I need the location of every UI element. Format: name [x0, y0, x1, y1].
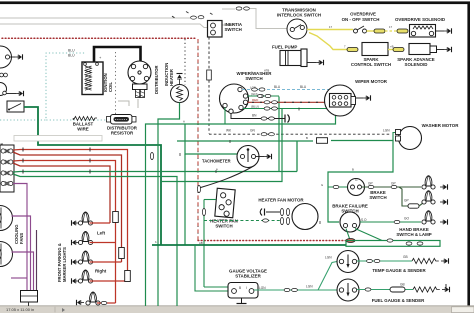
overdrive on-off switch — [354, 26, 367, 33]
svg-text:GN: GN — [250, 129, 255, 133]
svg-text:A: A — [183, 120, 185, 124]
red wire D — [13, 163, 110, 223]
spark control switch — [362, 43, 388, 56]
svg-text:17.05 x 11.00 in: 17.05 x 11.00 in — [6, 307, 34, 312]
red wire A — [13, 150, 128, 282]
svg-text:WK: WK — [226, 129, 232, 133]
wire yellow interlock to od switch — [307, 29, 353, 31]
svg-text:G: G — [321, 183, 323, 187]
washer motor M3 — [396, 127, 422, 150]
fuse in washer feed — [317, 138, 328, 144]
bulkhead connector block — [0, 145, 14, 192]
white wire sleeve — [14, 136, 102, 142]
connector on green vertical — [150, 152, 153, 159]
green wire brake feed vertical — [296, 141, 298, 172]
green wire wiper switch down — [278, 97, 280, 172]
marker lamp 3 — [78, 251, 92, 264]
wire temp gauge to sender — [357, 260, 412, 262]
svg-text:WASHER MOTOR: WASHER MOTOR — [422, 123, 460, 128]
black wire with capacitor to motor — [266, 211, 280, 213]
svg-text:LGN: LGN — [325, 256, 332, 260]
svg-text:GP: GP — [404, 199, 409, 203]
wire white inertia to interlock — [222, 24, 236, 26]
brake lamp 2 — [422, 191, 435, 204]
wire and ground for spark solenoid — [437, 49, 445, 51]
svg-text:AB: AB — [199, 241, 203, 245]
wire stabilizer to fuel gauge — [254, 289, 337, 291]
junction ticks — [180, 95, 320, 224]
green feed to heater switch — [204, 199, 216, 201]
wire below fans box — [28, 302, 30, 306]
svg-text:BN: BN — [252, 114, 257, 118]
green wire fuse run to washer — [177, 140, 313, 142]
wire yellow branch to spark row — [309, 33, 347, 50]
green ground from switch — [224, 108, 226, 125]
junction ticks on green wires — [23, 148, 90, 174]
red stub lamp2 — [90, 242, 116, 244]
dashed black horizontal wire — [209, 133, 391, 135]
brake failure switch S5 — [340, 212, 360, 232]
cooling fan 1 — [0, 206, 13, 231]
relay (cut at edge) — [0, 46, 15, 68]
svg-text:GB: GB — [400, 283, 405, 287]
fans connector box — [21, 291, 38, 303]
wiper motor M2 — [325, 85, 356, 116]
capacitor symbol — [285, 115, 289, 123]
purple wire to fans — [13, 184, 27, 292]
svg-text:SWITCH & LAMP: SWITCH & LAMP — [396, 232, 431, 237]
marker lamp 4 — [78, 270, 92, 283]
red stub lamp1 — [90, 222, 111, 224]
green dashed wire to motor — [204, 220, 280, 222]
top black border bar — [0, 1, 470, 4]
branch to temp gauge — [318, 262, 337, 291]
green wire bus row E — [13, 171, 297, 174]
distributor resistor R1 — [107, 115, 137, 125]
marker lamp 1 — [78, 212, 92, 225]
dotted red boundary bottom — [198, 240, 346, 242]
junction ticks on red wires — [22, 148, 24, 163]
green wire row F — [13, 174, 177, 306]
svg-text:BLU: BLU — [274, 85, 281, 89]
dotted gray vertical near coil — [115, 52, 117, 114]
svg-text:MARKER LIGHTS: MARKER LIGHTS — [62, 247, 67, 282]
svg-text:OVERDRIVE: OVERDRIVE — [350, 12, 376, 17]
svg-text:BLU: BLU — [300, 85, 307, 89]
wire fuel gauge to sender — [357, 289, 413, 291]
red wire B — [13, 152, 122, 262]
svg-text:GO: GO — [404, 217, 409, 221]
green bus bottom — [152, 244, 346, 246]
red stub lamp5 with connector — [97, 302, 116, 304]
green wire heater row — [296, 142, 298, 172]
heater fan switch S3 — [215, 188, 235, 217]
svg-text:HEATER FAN MOTOR: HEATER FAN MOTOR — [258, 198, 304, 203]
connector pair left edge — [0, 73, 3, 77]
svg-text:SWITCH: SWITCH — [225, 27, 242, 32]
svg-text:CONTROL SWITCH: CONTROL SWITCH — [351, 62, 391, 67]
svg-text:SWITCH: SWITCH — [369, 195, 386, 200]
connector pair on white wire — [191, 16, 197, 19]
svg-text:OVERDRIVE SOLENOID: OVERDRIVE SOLENOID — [395, 17, 445, 22]
svg-text:WIRE: WIRE — [77, 127, 89, 132]
svg-text:RED: RED — [252, 98, 259, 102]
spark advance solenoid — [409, 44, 437, 55]
red connector on boundary — [346, 239, 355, 243]
tachometer G1 — [237, 146, 259, 168]
green wire heater down — [158, 103, 180, 307]
green wire washer motor stubs — [393, 133, 396, 141]
wire and ground for od solenoid — [436, 30, 445, 32]
wire red wiper — [248, 101, 331, 103]
distributor base — [133, 84, 148, 98]
svg-text:ON - OFF SWITCH: ON - OFF SWITCH — [342, 17, 380, 22]
svg-text:GP: GP — [368, 182, 373, 186]
ground for small switch — [16, 91, 24, 96]
green wire long vertical 1 — [146, 105, 336, 306]
green wire tach feed — [185, 124, 242, 154]
motor connector ovals bottom — [280, 217, 283, 224]
temp gauge G2 — [337, 251, 359, 273]
svg-text:+B: +B — [390, 45, 394, 49]
svg-text:ATB: ATB — [264, 69, 269, 73]
dotted black vertical x185 — [184, 39, 186, 85]
dashed black vertical from inertia switch — [208, 37, 210, 134]
svg-text:S.O: S.O — [361, 218, 367, 222]
dashed red boundary vertical — [197, 39, 199, 241]
wire yellow to advance solenoid — [388, 49, 393, 51]
purple stub fan2 lower — [11, 277, 27, 279]
wire blue dashed to wiper motor — [242, 89, 330, 91]
transmission interlock switch S1 — [287, 19, 307, 39]
svg-text:HEATER: HEATER — [169, 69, 174, 86]
ground above heater — [177, 74, 183, 85]
wire brake switch to lamp1 — [362, 186, 422, 188]
svg-text:B: B — [239, 286, 241, 290]
dashed teal wire to coil — [46, 53, 116, 120]
fuel sender resistor — [413, 287, 440, 292]
svg-text:BLU: BLU — [68, 54, 75, 58]
fuse on red wire C — [113, 212, 119, 223]
svg-text:WIPER MOTOR: WIPER MOTOR — [355, 79, 388, 84]
wire dark green thermal switch to bus — [24, 107, 161, 245]
cooling fan 2 — [0, 242, 13, 267]
green wire vertical x185 lower — [184, 154, 186, 245]
motor connector ovals top — [280, 208, 283, 215]
distributor D1 — [128, 61, 151, 84]
red stub lamp4 — [90, 280, 128, 282]
svg-text:LGN: LGN — [383, 129, 390, 133]
svg-text:FUEL GAUGE & SENDER: FUEL GAUGE & SENDER — [372, 298, 425, 303]
white wire below distributor — [118, 101, 129, 106]
wire and ground wiper motor — [356, 97, 364, 99]
green feeds to stabilizer — [195, 245, 228, 291]
overdrive solenoid L1 — [410, 25, 436, 38]
thick black coil to distributor wire — [94, 47, 141, 69]
induction heater R2 — [171, 85, 189, 103]
svg-text:B: B — [352, 168, 354, 172]
purple wire fan1 — [12, 216, 31, 291]
inertia switch IS1 — [208, 21, 223, 38]
gauge voltage stabilizer U1 — [228, 283, 258, 299]
svg-text:I: I — [246, 286, 247, 290]
svg-text:Left: Left — [97, 231, 106, 236]
ballast wire zigzag — [74, 117, 97, 121]
svg-text:17: 17 — [389, 25, 393, 29]
marker lamp 5 — [86, 292, 100, 305]
svg-text:17: 17 — [329, 25, 333, 29]
svg-text:INTERLOCK SWITCH: INTERLOCK SWITCH — [277, 13, 321, 18]
svg-text:STABILIZER: STABILIZER — [235, 274, 261, 279]
feed to brake lamp 2 — [399, 187, 408, 206]
temp sender resistor — [412, 258, 439, 263]
svg-text:Right: Right — [95, 269, 107, 274]
green feed to brake switch — [328, 186, 347, 188]
svg-text:GB: GB — [403, 255, 408, 259]
svg-text:LGN: LGN — [306, 285, 313, 289]
marker lamp 2 — [78, 232, 92, 245]
wire green wiper low — [243, 108, 330, 110]
purple wire fan2 — [12, 252, 34, 291]
wire green wiper feed — [248, 95, 280, 97]
svg-text:RESISTOR: RESISTOR — [111, 131, 134, 136]
dotted red boundary top — [2, 37, 197, 39]
wire yellow od switch to solenoid — [367, 30, 375, 32]
brake lamp 3 — [422, 211, 435, 224]
small switch (cut at edge) — [0, 83, 16, 96]
svg-text:TEMP GAUGE & SENDER: TEMP GAUGE & SENDER — [372, 268, 426, 273]
red stub lamp3 — [90, 261, 122, 263]
svg-text:BLU: BLU — [68, 49, 75, 53]
wire and ground tachometer — [256, 156, 265, 158]
wire white feed upper — [0, 17, 190, 19]
wiper washer switch S2 — [220, 84, 249, 113]
right black border — [467, 2, 470, 306]
black wire from switch to capacitor — [231, 113, 285, 118]
wire failure switch to lamp3 — [360, 221, 421, 223]
svg-text:LGN: LGN — [250, 85, 256, 89]
svg-text:SWITCH: SWITCH — [215, 224, 232, 229]
brake lamp 1 — [422, 176, 435, 189]
junction tick — [172, 16, 175, 18]
green diagonals to hand brake — [355, 229, 389, 241]
bottom status bar — [0, 306, 474, 313]
green wire washer feed right — [328, 141, 393, 223]
red wire C — [13, 161, 116, 304]
black wire fans ground — [36, 230, 38, 291]
thermal switch — [7, 101, 24, 112]
ground for relay — [15, 54, 23, 59]
svg-text:TACHOMETER: TACHOMETER — [202, 159, 231, 164]
ground below stabilizer — [237, 298, 247, 304]
svg-text:B: B — [306, 136, 308, 140]
wire and ground fuel pump — [307, 62, 316, 64]
brake switch S4 — [348, 179, 365, 196]
svg-text:FANS: FANS — [19, 233, 24, 244]
black pickup wire crossing boundary — [199, 167, 252, 188]
svg-text:GP: GP — [391, 182, 396, 186]
fuel gauge G3 — [337, 279, 359, 301]
wire white to inertia switch — [0, 24, 208, 28]
fuse on red wire A — [125, 271, 131, 282]
svg-text:SWITCH: SWITCH — [245, 76, 262, 81]
svg-text:COIL: COIL — [108, 82, 113, 92]
svg-text:DISTRIBUTOR: DISTRIBUTOR — [154, 65, 159, 94]
svg-text:LGN: LGN — [259, 286, 266, 290]
heater fan motor M4 — [292, 204, 318, 230]
hand brake wire loop — [346, 241, 440, 247]
svg-text:(BLU): (BLU) — [251, 104, 259, 108]
fuse on red wire B — [119, 248, 125, 259]
svg-text:SOLENOID: SOLENOID — [405, 62, 428, 67]
svg-text:FUEL PUMP: FUEL PUMP — [272, 45, 297, 50]
green wire row I — [161, 109, 282, 182]
svg-text:(GN): (GN) — [251, 92, 258, 96]
ignition coil T1 — [82, 62, 103, 95]
fuel pump M1 — [280, 49, 307, 67]
